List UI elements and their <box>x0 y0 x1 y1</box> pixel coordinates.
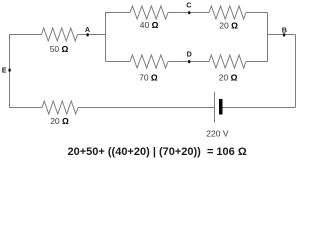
wire: bottom, resistor 20 to battery <box>78 107 215 109</box>
label node B <box>282 26 287 35</box>
svg-text:40 Ω: 40 Ω <box>140 20 159 30</box>
wire: bottom branch, resistor 20 to right junction <box>246 61 268 63</box>
wire: right junction vertical <box>267 13 269 62</box>
wire: bottom branch, split to resistor 70 <box>106 61 131 63</box>
resistor 20 ohm (bottom wire) <box>42 101 78 114</box>
svg-text:E: E <box>2 65 7 74</box>
svg-text:20 Ω: 20 Ω <box>50 116 69 126</box>
svg-text:B: B <box>282 26 287 35</box>
resistor 20 ohm (top branch right) <box>209 6 246 19</box>
resistor 50 ohm (top left) <box>42 28 78 41</box>
svg-text:D: D <box>187 49 192 58</box>
wire: right vertical down to bottom wire <box>295 35 297 108</box>
node D junction dot <box>188 60 190 63</box>
svg-text:C: C <box>186 1 191 10</box>
wire: left vertical from top-left corner down to bottom wire <box>9 34 11 108</box>
battery 220 V: thin long plate <box>214 92 216 123</box>
node A junction dot <box>86 33 88 36</box>
svg-text:20+50+ ((40+20) | (70+20)) =: 20+50+ ((40+20) | (70+20)) = 106 Ω <box>68 146 247 158</box>
formula text: total resistance <box>68 146 247 158</box>
resistor 70 ohm (bottom branch left) <box>130 55 168 68</box>
battery 220 V: thick short plate <box>219 99 223 115</box>
resistor 20 ohm (bottom branch right) <box>209 55 246 68</box>
value label 20 ohm (bottom branch) <box>219 73 238 83</box>
value label 220 V (battery) <box>206 128 229 138</box>
node C junction dot <box>188 11 190 14</box>
wire: top branch, split to resistor 40 <box>105 12 130 14</box>
wire: bottom left, corner to resistor 20 <box>10 107 43 109</box>
value label 70 ohm <box>139 72 158 82</box>
svg-text:20 Ω: 20 Ω <box>219 21 238 31</box>
resistor 40 ohm (top branch left) <box>130 6 168 19</box>
wire: top branch, resistor 20 to right junction <box>246 12 268 14</box>
svg-text:A: A <box>85 25 90 34</box>
svg-text:220 V: 220 V <box>206 128 229 138</box>
wire: top branch, resistor 40 to resistor 20 (through node C) <box>168 12 209 14</box>
svg-text:20 Ω: 20 Ω <box>219 73 238 83</box>
wire: bottom, battery to right corner <box>223 107 296 109</box>
node B junction dot <box>283 33 285 36</box>
wire: right junction to node B tap <box>268 34 296 36</box>
label node A <box>85 25 90 34</box>
value label 40 ohm <box>140 20 159 30</box>
svg-text:50 Ω: 50 Ω <box>50 44 69 54</box>
value label 50 ohm <box>50 44 69 54</box>
svg-text:70 Ω: 70 Ω <box>139 72 158 82</box>
node E junction dot <box>8 69 10 72</box>
value label 20 ohm (bottom wire) <box>50 116 69 126</box>
wire: bottom branch, resistor 70 to resistor 20 (through node D) <box>168 61 209 63</box>
label node D <box>187 49 192 58</box>
label node C <box>186 1 191 10</box>
wire: top-left horizontal, corner to resistor 50 <box>9 34 42 36</box>
label node E <box>2 65 7 74</box>
value label 20 ohm (top branch) <box>219 21 238 31</box>
wire: resistor 50 to parallel split (through node A) <box>78 34 106 36</box>
wire: parallel split vertical (left junction) <box>105 12 107 62</box>
